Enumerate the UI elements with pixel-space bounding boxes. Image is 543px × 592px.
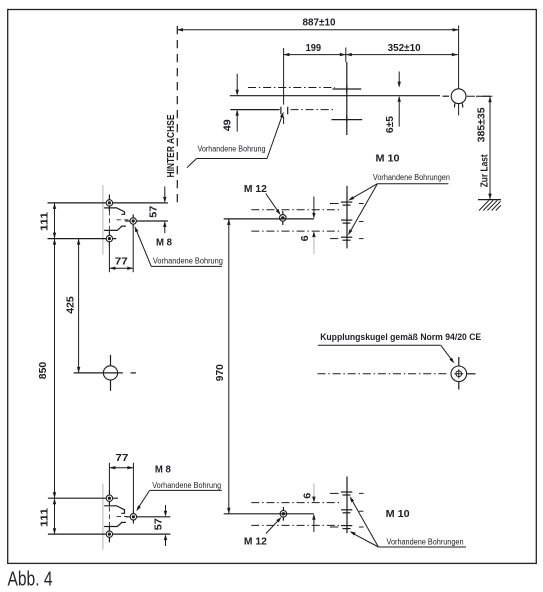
svg-text:850: 850 (37, 362, 49, 380)
top bracket hole line upper (48, 202, 168, 204)
leader Vorhandene Bohrung (frame hole) (187, 111, 285, 168)
coupling ball (451, 89, 466, 108)
dimension 352±10 (346, 42, 458, 56)
label M 8 (bottom) (155, 464, 171, 476)
svg-text:M 8: M 8 (155, 464, 171, 476)
svg-text:6±5: 6±5 (384, 116, 396, 133)
svg-text:77: 77 (115, 256, 128, 268)
top bracket hole upper (106, 195, 112, 212)
dimension 57 (top) (148, 186, 167, 233)
extension line stud column (345, 48, 347, 63)
top bracket M8 line (125, 220, 168, 222)
svg-text:57: 57 (152, 518, 164, 530)
top bracket profile upper (104, 208, 124, 214)
ball centerline left dash (443, 95, 450, 97)
svg-text:385±35: 385±35 (476, 107, 488, 142)
svg-text:M 12: M 12 (244, 535, 267, 547)
caption Abb. 4 (8, 568, 53, 591)
upper stud 1 (333, 86, 362, 93)
svg-text:M 10: M 10 (376, 152, 400, 164)
M10 stud middle (341, 220, 363, 223)
extension lines 77 top (109, 228, 133, 273)
svg-text:Vorhandene Bohrung: Vorhandene Bohrung (152, 481, 221, 490)
pitch centerline top lower (251, 230, 342, 232)
extension line ball vertical (458, 26, 460, 116)
axis line HINTERACHSE (dashed) (176, 26, 178, 207)
dimension 199 (283, 42, 345, 56)
label M 10 (top) (376, 152, 400, 164)
dimension 57 (bottom) (152, 505, 167, 546)
M10 stud bottom (bottom cluster) (330, 526, 364, 529)
coupling ball centerline (dash-dot) (318, 373, 447, 375)
bottom bracket hole line lower (48, 533, 170, 535)
bottom bracket frame edge (gray) (102, 484, 104, 550)
frame lower line (230, 109, 279, 111)
line through M12 bottom (224, 513, 314, 515)
dimension 6 (top cluster) (299, 197, 315, 255)
top bracket profile lower (104, 226, 126, 230)
label M 12 (top) (244, 183, 267, 195)
hole M12 top (280, 211, 287, 225)
svg-text:199: 199 (306, 42, 322, 54)
leader M 12 top (266, 194, 282, 217)
bottom bracket hidden dashes (109, 507, 128, 528)
svg-text:HINTER ACHSE: HINTER ACHSE (165, 115, 177, 178)
svg-text:M 10: M 10 (386, 508, 410, 520)
dimension 6±5 (384, 72, 401, 134)
upper stud 2 (332, 116, 363, 123)
svg-text:M 12: M 12 (244, 183, 267, 195)
dimension 970 (214, 219, 231, 514)
svg-text:Kupplungskugel gemäß Norm 94/2: Kupplungskugel gemäß Norm 94/20 CE (320, 332, 481, 343)
dimension 385±35 (476, 96, 493, 199)
svg-text:425: 425 (65, 296, 77, 314)
label Kupplungskugel gemäß Norm 94/20 CE (318, 332, 481, 364)
top bracket hole M8 (130, 214, 136, 227)
label Zur Last (478, 154, 490, 187)
leader Vorhandene Bohrungen (bottom) (348, 495, 466, 547)
M10 stud column (top cluster) (346, 186, 348, 249)
pitch centerline top upper (251, 209, 342, 211)
leader Vorhandene Bohrung (bottom bracket) (135, 481, 222, 512)
M10 stud top (330, 202, 364, 205)
svg-text:111: 111 (39, 212, 51, 231)
frame lower centerline continuation (291, 109, 335, 111)
svg-text:Zur Last: Zur Last (478, 154, 490, 187)
bottom bracket M8 line (126, 516, 171, 518)
ball centerline right (dash-dot) (467, 95, 493, 97)
dimension 6 (bottom cluster) (302, 484, 316, 533)
hole M12 bottom (280, 507, 287, 521)
bottom bracket hole lower (106, 526, 112, 542)
label M 8 (top) (156, 236, 172, 248)
svg-text:6: 6 (302, 493, 314, 499)
svg-text:887±10: 887±10 (303, 17, 336, 29)
ground hatch (478, 200, 501, 211)
leader Vorhandene Bohrungen (top) (347, 173, 450, 236)
M10 stud column (bottom cluster) (346, 477, 348, 534)
dimension 850 (37, 239, 56, 499)
svg-text:6: 6 (299, 235, 311, 241)
svg-text:77: 77 (115, 452, 128, 464)
svg-text:57: 57 (148, 206, 160, 218)
dimension 111 (bottom) (39, 498, 57, 534)
dimension 77 (top) (109, 256, 133, 270)
bottom bracket profile upper (104, 506, 124, 514)
svg-text:970: 970 (214, 364, 226, 381)
label M 10 (bottom) (386, 508, 410, 520)
svg-text:Vorhandene Bohrung: Vorhandene Bohrung (198, 145, 266, 154)
svg-text:352±10: 352±10 (388, 42, 421, 54)
svg-text:Vorhandene Bohrungen: Vorhandene Bohrungen (387, 538, 464, 547)
svg-text:Vorhandene Bohrungen: Vorhandene Bohrungen (373, 173, 450, 182)
pitch centerline bottom upper (251, 502, 342, 504)
dimension 425 (65, 239, 81, 373)
label HINTERACHSE (165, 115, 177, 178)
top bracket hole lower (106, 230, 112, 247)
svg-text:Vorhandene Bohrung: Vorhandene Bohrung (153, 257, 223, 266)
leader Vorhandene Bohrung (top bracket) (133, 225, 223, 266)
upper stud column (346, 62, 348, 135)
svg-text:111: 111 (39, 508, 51, 527)
leader M 12 bottom (266, 516, 283, 534)
dimension 111 (top) (39, 203, 57, 239)
dimension 49 (221, 74, 239, 132)
bottom bracket hole line upper (48, 497, 118, 499)
frame centerline (dash-dot) (248, 87, 335, 89)
bottom bracket hole M8 (130, 510, 136, 523)
M10 stud middle (bottom cluster) (341, 510, 363, 513)
dimension 887±10 (177, 17, 459, 32)
coupling ball hole symbol (451, 357, 476, 390)
top bracket frame edge (gray) (102, 185, 104, 255)
top bracket hole line lower (48, 238, 117, 240)
pitch centerline bottom lower (251, 524, 342, 526)
extension lines 77 bottom (109, 463, 133, 511)
bottom bracket hole upper (106, 490, 112, 507)
existing hole symbol in frame (281, 107, 288, 124)
svg-text:M 8: M 8 (156, 236, 172, 248)
line through M12 top (224, 218, 314, 220)
axle circle (74, 355, 136, 391)
bottom bracket profile lower (104, 522, 126, 526)
extension line existing hole (283, 48, 285, 105)
label M 12 (bottom) (244, 535, 267, 547)
svg-text:Abb. 4: Abb. 4 (8, 568, 53, 591)
left dimension line (shared) (54, 203, 56, 534)
M10 stud bottom (330, 237, 364, 240)
frame top line (230, 95, 440, 97)
top bracket hidden dashes (109, 211, 128, 231)
M10 stud top (bottom cluster) (330, 492, 364, 495)
dimension 77 (bottom) (109, 452, 133, 470)
svg-text:49: 49 (221, 119, 233, 131)
